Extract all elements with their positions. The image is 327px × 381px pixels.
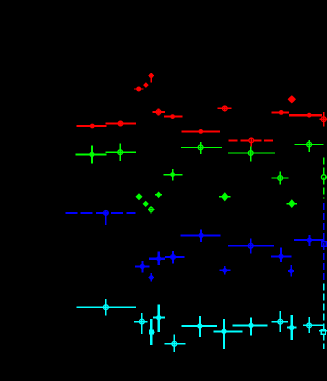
red cluster diamond: [143, 82, 149, 88]
red filled point 4: [272, 110, 289, 115]
red filled point 1: [76, 124, 106, 129]
blue filled point 5: [135, 261, 149, 273]
cyan open square at dashed line: [319, 330, 327, 334]
green open point 5: [271, 171, 288, 184]
blue filled point 1: [180, 229, 220, 242]
cyan open point 5: [303, 317, 324, 333]
green diamond with ticks 1: [219, 193, 231, 201]
green filled point 2: [164, 169, 183, 180]
cyan dashed vertical line: [323, 284, 325, 350]
blue open square at dashed line: [322, 242, 326, 246]
blue open point 3: [165, 251, 185, 263]
green cluster star diamond: [155, 192, 162, 199]
green series: filled markers thick bars: [75, 146, 182, 181]
blue small open circle: [148, 273, 154, 282]
blue open point 2: [228, 239, 274, 254]
cyan open point 3: [164, 334, 185, 352]
blue diamond cross 2: [288, 265, 294, 277]
cyan open point 4: [271, 311, 288, 332]
green open point 3: [228, 146, 275, 161]
cyan open point 1: [76, 299, 136, 316]
cyan filled point 4: [232, 318, 267, 336]
red series: open circles with thin error bars: [106, 73, 327, 147]
red open point with dashed bar: [229, 137, 275, 146]
blue filled point 2: [294, 235, 325, 246]
cyan filled square: [149, 319, 155, 345]
green open point 4: [295, 140, 324, 152]
green series: open circles thin bars: [106, 140, 327, 213]
green cluster open circle: [148, 206, 155, 214]
red filled point 2: [164, 114, 182, 119]
green dashed vertical line: [323, 158, 325, 199]
red series: filled circles with thick error bars: [76, 96, 322, 134]
green open point 1: [106, 144, 136, 162]
green filled point 1: [75, 146, 106, 164]
red cluster filled circle: [134, 87, 143, 92]
red open point 1: [106, 120, 136, 126]
green diamond with ticks 2: [287, 200, 298, 207]
blue open point with dashed bar: [66, 210, 136, 225]
green open point 2: [181, 142, 222, 154]
cyan filled point 5: [287, 315, 297, 340]
cyan filled point 1: [153, 305, 165, 332]
blue diamond cross 1: [219, 266, 230, 275]
red open point 3: [218, 105, 232, 111]
green open point at dashed line: [321, 175, 327, 180]
blue filled point 4: [149, 252, 165, 266]
red filled point 3: [182, 129, 221, 134]
red star marker: [288, 96, 295, 103]
cyan filled point 3: [214, 319, 243, 349]
blue series: [135, 229, 324, 272]
green cluster diamond 1: [136, 193, 143, 200]
red cluster open circle: [149, 73, 154, 83]
red filled point 5: [289, 113, 322, 118]
blue filled point 3: [271, 248, 292, 262]
cyan series: [149, 305, 297, 350]
red open point at dashed line: [320, 112, 327, 127]
cyan open point 2: [134, 313, 148, 334]
cyan filled point 2: [181, 316, 217, 337]
red open point 2: [153, 109, 166, 116]
green cluster diamond 2: [143, 201, 149, 207]
blue dashed vertical line: [323, 203, 325, 282]
